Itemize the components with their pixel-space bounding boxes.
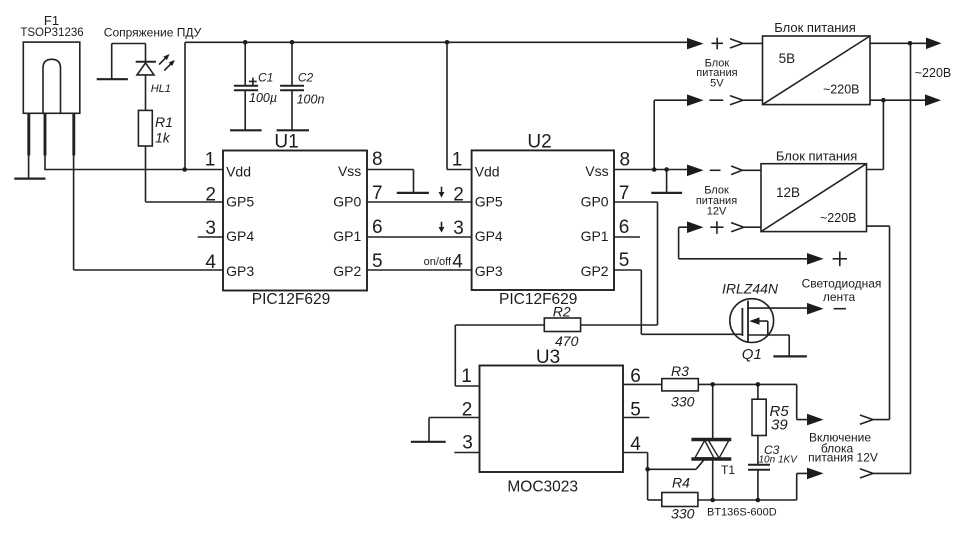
svg-text:1k: 1k <box>155 130 171 146</box>
svg-text:3: 3 <box>205 218 216 239</box>
svg-text:GP5: GP5 <box>475 194 503 210</box>
svg-text:5В: 5В <box>779 51 796 66</box>
svg-text:TSOP31236: TSOP31236 <box>20 27 83 39</box>
svg-text:R1: R1 <box>155 114 173 130</box>
svg-text:Vss: Vss <box>338 163 361 179</box>
svg-text:4: 4 <box>630 434 641 455</box>
svg-text:~220В: ~220В <box>820 211 857 225</box>
svg-text:GP1: GP1 <box>581 228 609 244</box>
svg-text:8: 8 <box>620 150 631 171</box>
svg-text:U1: U1 <box>274 132 298 153</box>
svg-text:330: 330 <box>671 393 695 409</box>
svg-text:100n: 100n <box>297 92 325 106</box>
svg-text:Блок питания: Блок питания <box>774 20 855 35</box>
svg-text:GP5: GP5 <box>226 194 254 210</box>
svg-text:T1: T1 <box>721 463 735 477</box>
svg-text:8: 8 <box>372 149 383 170</box>
svg-text:2: 2 <box>453 185 464 206</box>
svg-text:GP0: GP0 <box>581 194 609 210</box>
svg-text:~220В: ~220В <box>823 83 860 97</box>
svg-text:7: 7 <box>372 183 383 204</box>
svg-text:GP1: GP1 <box>333 228 361 244</box>
svg-text:3: 3 <box>462 433 473 454</box>
svg-text:12В: 12В <box>776 185 800 200</box>
svg-text:U3: U3 <box>536 347 560 368</box>
svg-text:C1: C1 <box>258 70 273 84</box>
svg-text:Сопряжение ПДУ: Сопряжение ПДУ <box>104 26 202 40</box>
svg-text:HL1: HL1 <box>151 83 171 95</box>
svg-text:470: 470 <box>555 333 579 349</box>
svg-text:12V: 12V <box>707 205 727 217</box>
svg-text:3: 3 <box>453 218 464 239</box>
svg-text:GP3: GP3 <box>475 263 503 279</box>
svg-text:GP4: GP4 <box>226 228 254 244</box>
svg-text:2: 2 <box>205 185 216 206</box>
svg-text:5: 5 <box>619 250 630 271</box>
svg-text:U2: U2 <box>527 132 551 153</box>
svg-text:Vdd: Vdd <box>475 164 500 180</box>
svg-text:10n 1KV: 10n 1KV <box>759 455 799 466</box>
svg-text:лента: лента <box>823 290 856 304</box>
svg-text:6: 6 <box>619 217 630 238</box>
svg-text:Vss: Vss <box>585 163 608 179</box>
svg-text:Q1: Q1 <box>742 346 762 363</box>
svg-text:R4: R4 <box>672 474 690 490</box>
svg-text:330: 330 <box>671 506 695 522</box>
svg-text:GP2: GP2 <box>333 263 361 279</box>
svg-text:7: 7 <box>619 183 630 204</box>
svg-text:on/off: on/off <box>424 256 452 268</box>
svg-text:GP0: GP0 <box>333 194 361 210</box>
svg-text:1: 1 <box>452 150 463 171</box>
svg-text:R2: R2 <box>553 304 571 320</box>
svg-text:Светодиодная: Светодиодная <box>802 277 882 291</box>
svg-text:5V: 5V <box>710 78 724 90</box>
svg-text:6: 6 <box>372 217 383 238</box>
svg-text:GP3: GP3 <box>226 263 254 279</box>
svg-text:C2: C2 <box>298 70 314 84</box>
svg-text:MOC3023: MOC3023 <box>507 479 578 496</box>
svg-text:питания 12V: питания 12V <box>808 451 878 465</box>
svg-text:2: 2 <box>462 400 473 421</box>
svg-text:5: 5 <box>630 400 641 421</box>
svg-text:BT136S-600D: BT136S-600D <box>707 507 777 519</box>
svg-text:~220В: ~220В <box>915 66 952 80</box>
svg-text:GP2: GP2 <box>581 263 609 279</box>
svg-text:6: 6 <box>630 366 641 387</box>
svg-text:Блок питания: Блок питания <box>776 149 857 164</box>
svg-text:39: 39 <box>771 417 788 434</box>
svg-text:F1: F1 <box>44 13 59 28</box>
svg-text:PIC12F629: PIC12F629 <box>252 291 330 308</box>
svg-text:1: 1 <box>461 366 472 387</box>
svg-text:4: 4 <box>205 252 216 273</box>
svg-text:R3: R3 <box>671 363 689 379</box>
svg-text:100µ: 100µ <box>249 91 277 105</box>
svg-text:IRLZ44N: IRLZ44N <box>722 281 779 297</box>
svg-text:1: 1 <box>205 150 216 171</box>
svg-text:4: 4 <box>452 252 463 273</box>
svg-text:5: 5 <box>372 251 383 272</box>
svg-text:GP4: GP4 <box>475 228 503 244</box>
svg-text:Vdd: Vdd <box>226 164 251 180</box>
